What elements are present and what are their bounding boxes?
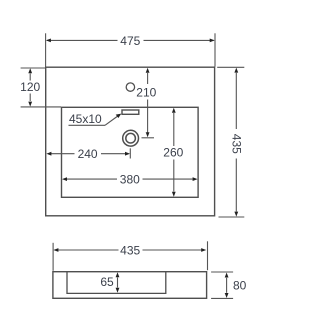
- dimension 120 (rim to bowl edge, left): [21, 68, 61, 107]
- svg-text:435: 435: [120, 244, 140, 258]
- faucet hole circle: [126, 83, 134, 91]
- dimension 80 (elevation height, right): [211, 272, 233, 298]
- drain inner circle: [126, 133, 136, 143]
- svg-text:380: 380: [120, 173, 140, 187]
- overflow slot callout 45x10 with leader: [69, 116, 119, 126]
- dimension 435 (elevation width, bottom view): [53, 241, 207, 270]
- front elevation outer body: [53, 272, 207, 299]
- drain outer circle: [123, 130, 139, 146]
- dimension 240 (left rim to drain center): [51, 148, 130, 158]
- basin outer rim (top view): [46, 67, 215, 216]
- dimension 475 (overall width, top): [46, 33, 215, 66]
- svg-text:240: 240: [78, 147, 98, 161]
- dimension 380 (bowl width): [67, 178, 193, 180]
- dimension 65 (recess depth): [117, 278, 119, 288]
- svg-text:80: 80: [233, 278, 247, 292]
- svg-text:120: 120: [20, 80, 40, 94]
- dimension 260 (bowl height): [173, 113, 175, 192]
- svg-text:475: 475: [120, 34, 140, 48]
- svg-text:260: 260: [163, 146, 183, 160]
- overflow slot 45x10: [122, 110, 139, 114]
- front elevation recess (basin depth): [67, 272, 166, 294]
- dimension 435 (overall depth, right side, rotated): [217, 67, 244, 217]
- dimension 210 (rim top to drain center): [142, 73, 155, 138]
- basin inner bowl rectangle (top view): [62, 107, 199, 197]
- svg-text:45x10: 45x10: [69, 112, 102, 126]
- svg-text:435: 435: [229, 134, 243, 154]
- svg-text:210: 210: [136, 86, 156, 100]
- svg-text:65: 65: [100, 275, 114, 289]
